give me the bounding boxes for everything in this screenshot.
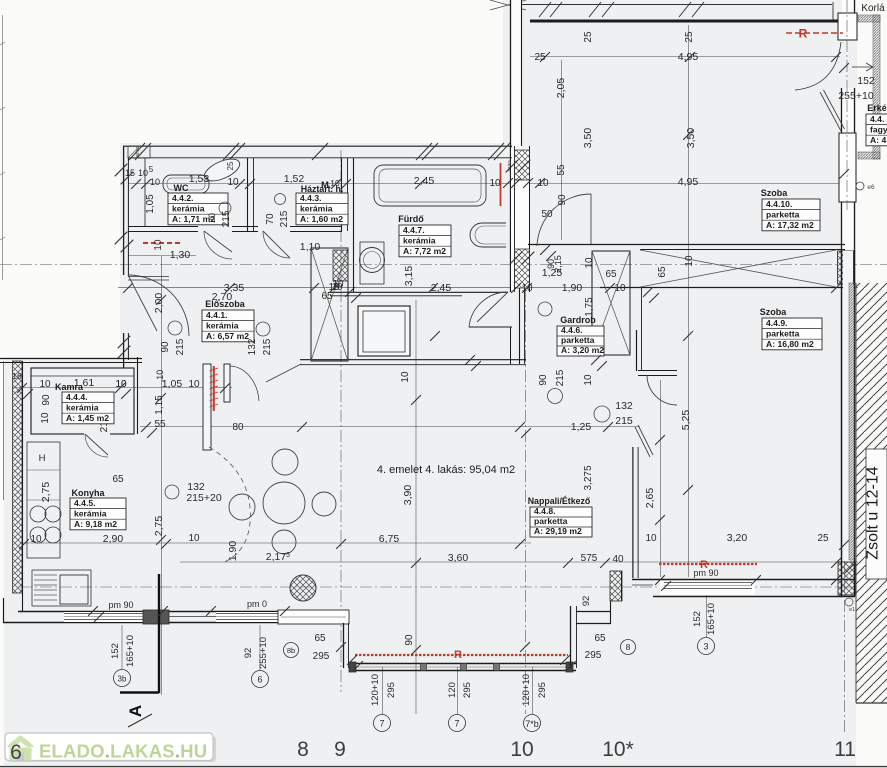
left wall of room 4.4.10 / bath divider bbox=[511, 0, 522, 147]
svg-text:2,05: 2,05 bbox=[555, 78, 567, 99]
label box Kamra 4.4.4 bbox=[62, 392, 114, 424]
label box Nappali 4.4.8 bbox=[530, 507, 592, 537]
axis dash-dot horizontal y264 bbox=[0, 264, 887, 266]
window pm0 bbox=[216, 613, 278, 615]
WC door arc bbox=[204, 231, 232, 259]
right wall pillar bbox=[839, 133, 856, 202]
svg-text:Erké: Erké bbox=[867, 103, 887, 113]
wall piece with door szoba 4.4.9 bbox=[638, 370, 677, 372]
left scan edge line bbox=[2, 15, 4, 280]
duct circle konyha bbox=[165, 485, 179, 499]
dim line y56 top room bbox=[530, 56, 845, 58]
svg-text:4.4.10.: 4.4.10. bbox=[766, 199, 792, 209]
right wall lower bbox=[841, 250, 843, 597]
dim line vertical x532 to circle 7b bbox=[532, 667, 534, 714]
top wall of room 4.4.10 bbox=[530, 20, 838, 23]
svg-text:e6: e6 bbox=[867, 184, 875, 191]
dim line y287 bbox=[118, 287, 858, 289]
red mark r1 on left wall bbox=[143, 242, 183, 244]
svg-text:3,15: 3,15 bbox=[403, 266, 415, 287]
node 7 bbox=[449, 715, 466, 732]
svg-text:10: 10 bbox=[188, 379, 200, 390]
svg-text:4.4.9.: 4.4.9. bbox=[766, 318, 788, 328]
balcony door arc bbox=[795, 42, 841, 90]
svg-text:215: 215 bbox=[221, 210, 232, 227]
WC door leaf bbox=[204, 231, 232, 252]
X-band wardrobe strip below room 4.4.10 bbox=[600, 287, 853, 289]
svg-text:10: 10 bbox=[150, 177, 160, 187]
entry door leaf bbox=[128, 275, 157, 331]
axis dash-dot horizontal y587 bbox=[20, 586, 858, 588]
svg-text:8: 8 bbox=[297, 738, 309, 761]
label box Furdo 4.4.7 bbox=[399, 225, 451, 257]
dim line vertical x688 bbox=[688, 25, 690, 577]
door arc right of red door bbox=[230, 366, 259, 401]
parapet above top wall bbox=[515, 4, 832, 6]
svg-text:2,00: 2,00 bbox=[153, 293, 165, 314]
svg-text:A: 1,60 m2: A: 1,60 m2 bbox=[300, 214, 343, 224]
plan tint left strip bbox=[4, 357, 120, 767]
svg-text:7: 7 bbox=[379, 719, 384, 729]
duct circle bbox=[168, 321, 182, 335]
svg-text:Konyha: Konyha bbox=[71, 488, 105, 498]
corner box top-left bbox=[128, 146, 150, 158]
svg-text:7*b: 7*b bbox=[525, 719, 539, 729]
kamra door arc bbox=[85, 434, 108, 457]
svg-text:3b: 3b bbox=[118, 675, 127, 684]
hatch block bbox=[610, 571, 622, 601]
node e6 bbox=[856, 182, 864, 190]
bottom wall of room 4.4.10 bbox=[528, 244, 845, 246]
X shaft left bbox=[311, 248, 348, 361]
svg-text:11: 11 bbox=[834, 738, 856, 761]
svg-text:65: 65 bbox=[657, 266, 668, 278]
recess right wall bbox=[570, 606, 572, 668]
wall right of recess bbox=[576, 611, 611, 613]
red vertical mark in bath wall bbox=[500, 163, 502, 206]
watermark ELADO.LAKAS.HU bbox=[8, 736, 216, 762]
south wall left segment bbox=[18, 611, 349, 613]
label box WC 4.4.2 bbox=[168, 193, 228, 225]
svg-text:A: A bbox=[126, 705, 145, 717]
svg-text:90: 90 bbox=[538, 374, 549, 386]
svg-text:4. emelet 4. lakás: 95,04 m2: 4. emelet 4. lakás: 95,04 m2 bbox=[377, 464, 515, 476]
red R mark top right bbox=[786, 32, 843, 34]
svg-text:10: 10 bbox=[30, 534, 42, 545]
door leaf bbox=[635, 427, 650, 457]
right wall of room 4.4.10 bbox=[842, 0, 855, 250]
white right edge bbox=[856, 0, 887, 768]
node 7 bbox=[374, 715, 391, 732]
dim line y543 bbox=[20, 542, 531, 544]
svg-text:3,90: 3,90 bbox=[402, 485, 414, 506]
svg-text:2,75: 2,75 bbox=[40, 482, 52, 503]
wall stub above right bbox=[832, 2, 834, 20]
watermark house icon bbox=[8, 735, 34, 747]
dim line vertical x561 bbox=[561, 60, 563, 240]
hatch block right end of X-band bbox=[838, 251, 854, 284]
svg-text:1,30: 1,30 bbox=[170, 249, 191, 261]
window mullion bbox=[494, 664, 500, 671]
svg-text:parketta: parketta bbox=[766, 209, 800, 219]
window mullion bbox=[421, 664, 427, 671]
hatch block in wall (flue) bbox=[515, 150, 530, 180]
svg-text:98.52: 98.52 bbox=[135, 146, 140, 157]
node e1 bbox=[845, 598, 853, 606]
svg-text:4.4.6.: 4.4.6. bbox=[561, 325, 583, 335]
svg-text:16: 16 bbox=[12, 371, 22, 381]
svg-text:50: 50 bbox=[541, 209, 553, 220]
svg-text:A: 4: A: 4 bbox=[870, 135, 886, 145]
svg-text:15: 15 bbox=[125, 168, 135, 178]
svg-text:10: 10 bbox=[115, 379, 127, 390]
top wall of WC/bath block bbox=[123, 145, 512, 147]
svg-text:55: 55 bbox=[556, 164, 567, 176]
plan tint top-right bbox=[503, 0, 860, 143]
svg-text:kerámia: kerámia bbox=[403, 235, 436, 245]
left outer wall upper bbox=[123, 146, 125, 275]
konyha counters bbox=[27, 442, 60, 558]
svg-text:kerámia: kerámia bbox=[300, 203, 333, 213]
WC small sink rounded bbox=[163, 175, 209, 193]
gardrob walls below T bbox=[519, 288, 521, 364]
dining table with chairs bbox=[263, 482, 305, 524]
dim line y562 bbox=[180, 561, 858, 563]
svg-text:1,05: 1,05 bbox=[162, 378, 183, 390]
svg-text:H: H bbox=[39, 453, 46, 464]
svg-text:6,75: 6,75 bbox=[379, 533, 400, 545]
axis dash-dot vertical x844 bbox=[844, 0, 846, 734]
bathroom bottom wall bbox=[330, 291, 508, 293]
svg-text:Szoba: Szoba bbox=[761, 188, 788, 198]
svg-text:1,75: 1,75 bbox=[584, 297, 595, 317]
wall stub above left bbox=[514, 0, 516, 20]
svg-text:Szoba: Szoba bbox=[760, 307, 787, 317]
left crosshatch wall bbox=[13, 361, 23, 593]
szoba 4.4.9 bottom wall bbox=[632, 579, 855, 581]
crosshatch column circle bbox=[290, 575, 316, 601]
Zsolt u 12-14 label bbox=[866, 449, 887, 579]
hatch block in wall lower bbox=[515, 249, 530, 288]
svg-text:3: 3 bbox=[703, 642, 708, 652]
WC bottom wall with door bbox=[128, 226, 198, 228]
svg-text:1,61: 1,61 bbox=[74, 377, 95, 389]
threshold bbox=[169, 616, 216, 618]
svg-text:4.4.1.: 4.4.1. bbox=[206, 310, 228, 320]
door post top bbox=[838, 13, 857, 40]
label box Gardrob 4.4.6 bbox=[557, 326, 604, 356]
dim line y183 top room bbox=[530, 183, 845, 185]
svg-text:10: 10 bbox=[153, 239, 164, 251]
dimension tick marks bbox=[123, 283, 133, 293]
svg-text:92: 92 bbox=[243, 648, 254, 659]
svg-text:1,53: 1,53 bbox=[189, 173, 210, 185]
ruler tick bbox=[0, 107, 5, 110]
red line r7 szoba 4.4.9 bbox=[659, 563, 757, 565]
bottom scan edge line bbox=[0, 766, 887, 768]
svg-text:1,90: 1,90 bbox=[227, 541, 239, 562]
svg-text:152: 152 bbox=[857, 75, 875, 87]
svg-text:3,20: 3,20 bbox=[727, 532, 748, 544]
svg-text:A: 1,45 m2: A: 1,45 m2 bbox=[66, 413, 109, 423]
svg-text:10: 10 bbox=[583, 374, 594, 386]
recess left wall bbox=[343, 623, 345, 668]
svg-text:R: R bbox=[799, 27, 808, 41]
svg-text:215: 215 bbox=[262, 338, 273, 355]
svg-text:kerámia: kerámia bbox=[206, 320, 239, 330]
svg-text:pm 90: pm 90 bbox=[693, 568, 718, 578]
node 3b bbox=[114, 670, 131, 687]
svg-text:4.4.8.: 4.4.8. bbox=[534, 506, 556, 516]
svg-text:WC: WC bbox=[174, 183, 189, 193]
szelfogo line bbox=[128, 276, 169, 278]
svg-text:kerámia: kerámia bbox=[74, 508, 107, 518]
svg-text:parketta: parketta bbox=[766, 328, 800, 338]
duct circle hall bbox=[538, 302, 552, 316]
node 8 bbox=[621, 640, 636, 655]
axis dash-dot vertical x341 bbox=[340, 150, 342, 692]
svg-text:575: 575 bbox=[581, 553, 598, 564]
door arc szoba 4.4.9 bbox=[647, 375, 677, 405]
balcony top right (Erkely) insulation band bbox=[858, 15, 880, 22]
kamra room bbox=[31, 368, 134, 434]
svg-text:A: 7,72 m2: A: 7,72 m2 bbox=[403, 246, 446, 256]
dim line vertical x457 to circle 7 bbox=[457, 667, 459, 714]
svg-text:152: 152 bbox=[110, 643, 121, 659]
svg-text:215: 215 bbox=[279, 210, 290, 227]
svg-text:1,90: 1,90 bbox=[562, 282, 583, 294]
svg-text:65: 65 bbox=[605, 269, 617, 280]
svg-text:65: 65 bbox=[594, 633, 606, 644]
svg-text:1,05: 1,05 bbox=[145, 194, 156, 214]
svg-text:1,10: 1,10 bbox=[300, 241, 321, 253]
dim line vertical x260 to circle 6 bbox=[259, 625, 261, 670]
dim line vertical x122 to circle 3b bbox=[121, 625, 123, 669]
svg-text:295: 295 bbox=[462, 682, 473, 698]
duct circle hall 2 bbox=[548, 389, 563, 404]
svg-text:90: 90 bbox=[160, 341, 171, 353]
svg-text:90: 90 bbox=[557, 194, 568, 206]
svg-text:4.4.3.: 4.4.3. bbox=[300, 193, 322, 203]
door arc room 4.4.10 bottom-left bbox=[537, 194, 591, 246]
svg-text:4.4.4.: 4.4.4. bbox=[66, 392, 88, 402]
dim line y183 wc row bbox=[128, 183, 512, 185]
ruler tick bbox=[0, 42, 5, 45]
Haztartasi helyiseg room bbox=[341, 158, 343, 231]
svg-text:8: 8 bbox=[626, 642, 631, 652]
svg-text:2,65: 2,65 bbox=[644, 488, 656, 509]
svg-text:295: 295 bbox=[386, 682, 397, 698]
node 3 bbox=[698, 638, 715, 655]
konyha bottom appliances bbox=[32, 570, 91, 606]
nappali east wall bbox=[632, 447, 634, 578]
dim line y387 kamra row bbox=[13, 387, 232, 389]
svg-text:65: 65 bbox=[112, 474, 124, 485]
svg-text:pm 0: pm 0 bbox=[247, 599, 267, 609]
svg-text:80: 80 bbox=[232, 422, 244, 433]
label box Haztart 4.4.3 bbox=[296, 193, 348, 225]
svg-text:165+10: 165+10 bbox=[706, 603, 717, 635]
svg-text:A: 9,18 m2: A: 9,18 m2 bbox=[74, 519, 117, 529]
svg-text:5,25: 5,25 bbox=[680, 410, 692, 431]
svg-text:A: 6,57 m2: A: 6,57 m2 bbox=[206, 331, 249, 341]
window pm90 bbox=[64, 613, 143, 615]
dim line vertical x382 to circle 7 bbox=[382, 667, 384, 714]
svg-text:255+10: 255+10 bbox=[258, 637, 269, 669]
svg-text:215: 215 bbox=[615, 415, 633, 427]
svg-text:20: 20 bbox=[207, 213, 217, 223]
svg-text:10: 10 bbox=[645, 533, 657, 544]
svg-text:2,17: 2,17 bbox=[266, 551, 287, 563]
label box Eloszoba 4.4.1 bbox=[202, 310, 254, 342]
svg-text:295: 295 bbox=[585, 650, 602, 661]
svg-text:3,50: 3,50 bbox=[685, 128, 697, 149]
svg-text:90: 90 bbox=[41, 394, 52, 406]
svg-text:4.4.2.: 4.4.2. bbox=[172, 193, 194, 203]
svg-text:Zsolt u 12-14: Zsolt u 12-14 bbox=[865, 466, 882, 559]
svg-text:10: 10 bbox=[40, 412, 51, 424]
ruler tick bbox=[0, 237, 5, 240]
svg-text:132: 132 bbox=[615, 400, 633, 412]
svg-text:Korlá: Korlá bbox=[861, 3, 885, 14]
wall block corner bbox=[278, 610, 349, 624]
svg-text:Gardrob: Gardrob bbox=[560, 315, 596, 325]
door leaf to hall bbox=[266, 364, 301, 382]
parapet hatch ticks bbox=[539, 2, 551, 17]
corridor bottom wall bbox=[300, 359, 526, 361]
svg-text:ELADO.LAKAS.HU: ELADO.LAKAS.HU bbox=[39, 741, 207, 762]
svg-text:kerámia: kerámia bbox=[66, 402, 99, 412]
Haztart duct circle bbox=[275, 194, 286, 205]
kamra door bbox=[84, 433, 110, 436]
svg-text:10: 10 bbox=[510, 738, 533, 761]
svg-text:Nappali/Étkező: Nappali/Étkező bbox=[528, 496, 591, 506]
svg-text:A: 3,20 m2: A: 3,20 m2 bbox=[561, 345, 604, 355]
svg-text:2,15: 2,15 bbox=[553, 255, 563, 273]
ruler tick bbox=[0, 172, 5, 175]
duct circle bbox=[256, 322, 270, 336]
svg-text:4.4.5.: 4.4.5. bbox=[74, 498, 96, 508]
recess window band bbox=[349, 663, 576, 665]
svg-text:R: R bbox=[454, 649, 462, 661]
svg-text:120+10: 120+10 bbox=[370, 674, 381, 706]
X shaft 2 (between gardrob and szoba) bbox=[592, 251, 630, 355]
svg-text:25: 25 bbox=[583, 31, 594, 43]
svg-text:40: 40 bbox=[612, 554, 624, 565]
hatch block wall end bbox=[838, 562, 855, 595]
svg-text:70: 70 bbox=[265, 213, 276, 225]
svg-text:92: 92 bbox=[581, 596, 592, 607]
node 7b bbox=[524, 715, 541, 732]
X braces above top wall left bbox=[490, 0, 526, 10]
svg-text:2,90: 2,90 bbox=[103, 533, 124, 545]
insulation strip along right wall bbox=[849, 283, 856, 560]
dim line vertical x706 to circle 3 bbox=[706, 592, 708, 637]
svg-text:215+20: 215+20 bbox=[186, 492, 221, 504]
svg-text:1,25: 1,25 bbox=[571, 421, 592, 433]
svg-text:10: 10 bbox=[400, 371, 411, 383]
svg-text:120: 120 bbox=[447, 682, 458, 698]
door leaf room 4.4.10 bbox=[590, 194, 592, 244]
svg-text:5: 5 bbox=[149, 165, 154, 174]
svg-text:6: 6 bbox=[10, 741, 22, 764]
label box Konyha 4.4.5 bbox=[70, 498, 126, 530]
svg-text:pm 90: pm 90 bbox=[108, 600, 133, 610]
svg-text:4.4.7.: 4.4.7. bbox=[403, 225, 425, 235]
gardrob S-wall bbox=[469, 326, 512, 328]
svg-text:295: 295 bbox=[313, 651, 330, 662]
square shaft bbox=[358, 306, 410, 356]
dim line vertical x416 bbox=[415, 300, 417, 714]
bath door leaf bbox=[477, 292, 508, 322]
svg-text:165+10: 165+10 bbox=[125, 635, 136, 667]
dim line 1,30 bbox=[128, 255, 196, 257]
svg-text:10: 10 bbox=[489, 178, 501, 189]
svg-text:10: 10 bbox=[584, 257, 595, 269]
washbasin on right wall bbox=[470, 223, 506, 247]
dim line vertical x161 bbox=[161, 256, 163, 695]
svg-text:3,275: 3,275 bbox=[583, 465, 594, 490]
svg-text:215: 215 bbox=[175, 338, 186, 355]
svg-text:3,50: 3,50 bbox=[582, 128, 594, 149]
svg-text:120+10: 120+10 bbox=[521, 674, 532, 706]
svg-text:Fürdő: Fürdő bbox=[398, 214, 424, 224]
dim line vertical x660 bbox=[660, 380, 662, 577]
bath door arc bbox=[469, 292, 508, 327]
svg-text:215: 215 bbox=[555, 369, 566, 386]
svg-text:10: 10 bbox=[39, 379, 51, 390]
svg-text:10*: 10* bbox=[602, 738, 634, 761]
svg-text:fagy: fagy bbox=[870, 124, 887, 134]
washing machine bbox=[360, 242, 384, 284]
svg-text:kerámia: kerámia bbox=[172, 203, 205, 213]
dim line y426 bbox=[140, 426, 640, 428]
svg-text:4,95: 4,95 bbox=[678, 176, 699, 188]
svg-text:A: 17,32 m2: A: 17,32 m2 bbox=[766, 220, 814, 230]
svg-text:A: 16,80 m2: A: 16,80 m2 bbox=[766, 339, 814, 349]
svg-text:132: 132 bbox=[247, 338, 258, 355]
svg-text:65: 65 bbox=[314, 633, 326, 644]
svg-text:25: 25 bbox=[684, 31, 695, 43]
section line A bbox=[158, 574, 160, 693]
svg-text:2,70: 2,70 bbox=[212, 291, 233, 303]
svg-text:90: 90 bbox=[404, 634, 415, 646]
doorway blade with red mark (corridor to nappali) bbox=[203, 364, 211, 450]
left wall lines bbox=[22, 361, 24, 611]
duct circle nappali bbox=[594, 406, 610, 422]
balcony door leaf bbox=[820, 92, 841, 131]
svg-text:10: 10 bbox=[138, 168, 148, 178]
svg-text:e1: e1 bbox=[849, 607, 855, 613]
axis dash-dot vertical x525 bbox=[525, 150, 527, 714]
svg-text:7: 7 bbox=[454, 719, 459, 729]
svg-text:25: 25 bbox=[226, 161, 235, 170]
window mullion bbox=[461, 664, 467, 671]
svg-text:295: 295 bbox=[537, 682, 548, 698]
toilet bbox=[201, 155, 243, 186]
svg-text:1,15: 1,15 bbox=[154, 395, 165, 415]
svg-text:2,75: 2,75 bbox=[153, 516, 165, 537]
plan area tint bbox=[120, 143, 860, 767]
Haztart door arc bbox=[263, 231, 290, 258]
svg-text:3,60: 3,60 bbox=[448, 552, 469, 564]
flue crosshatch in shaft bbox=[333, 250, 348, 281]
WC duct circle bbox=[219, 202, 231, 214]
dashed curve dining area bbox=[209, 447, 250, 563]
svg-text:8b: 8b bbox=[287, 646, 295, 655]
wall block bbox=[143, 610, 169, 624]
svg-text:9: 9 bbox=[334, 738, 346, 761]
